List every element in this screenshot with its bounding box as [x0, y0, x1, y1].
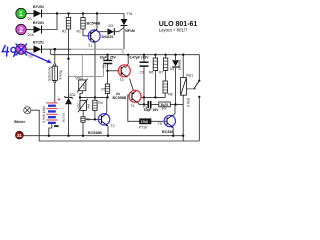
svg-text:BZX19: BZX19 [62, 112, 66, 122]
node junction D4 on rail Q [174, 54, 176, 56]
wire R1 bottom to T1 base [83, 29, 91, 36]
diode D2 BY251 [29, 41, 45, 59]
svg-text:D1b: D1b [28, 33, 34, 37]
svg-text:T3: T3 [120, 78, 124, 82]
node junction relay return on ground rail [182, 135, 184, 137]
svg-text:D1: D1 [28, 17, 32, 21]
diode D3 1N4151 [102, 24, 115, 39]
wire C1 bottom to T3 base tap to R5 box [107, 64, 109, 84]
svg-text:150: 150 [82, 84, 86, 89]
svg-text:4k8: 4k8 [86, 103, 90, 108]
svg-text:R6: R6 [149, 70, 153, 74]
capacitor C2 0.47uF 63V [130, 55, 150, 74]
svg-text:BC338: BC338 [162, 130, 173, 134]
node junction T3 base tap [106, 70, 108, 72]
wire fuse to battery plus [54, 83, 56, 103]
wire T3 emitter diagonal to T4 emitter [130, 79, 134, 91]
node junction R7 on rail Q [164, 54, 166, 56]
svg-text:C1: C1 [102, 65, 106, 69]
wire T3 base from C1 column [108, 70, 120, 72]
wire D1b output up to top rail [42, 14, 57, 30]
svg-text:31: 31 [17, 133, 22, 138]
terminal 3 (magenta) [16, 44, 26, 54]
thermistor NTC [77, 99, 91, 112]
svg-text:2: 2 [19, 27, 23, 34]
resistor R1 [77, 18, 86, 34]
zener diode ZD1 [62, 93, 76, 122]
terminal 1 (green) [16, 8, 26, 18]
svg-text:R9: R9 [162, 107, 166, 111]
wire T1 collector tap right to D3 [97, 31, 108, 33]
node junction R4 at T2 base [94, 118, 96, 120]
wire T4 base stub and down to PT10 [128, 95, 140, 121]
wire T4 right side to R6/R8 bottom node [141, 96, 165, 98]
wire relay coil top from rail Q [182, 55, 184, 78]
wire T2 collector up to mid node [106, 97, 108, 113]
svg-text:BY251: BY251 [33, 41, 44, 45]
node junction T1 collector on top rail [96, 12, 98, 14]
wire R4 bottom to T2 base junction [94, 111, 96, 120]
svg-text:6 Volt 14Ah: 6 Volt 14Ah [42, 106, 46, 123]
wire R8 bottom to node [164, 93, 166, 97]
diode D1b BY251 [28, 21, 45, 37]
svg-text:Th1: Th1 [127, 12, 133, 16]
svg-text:Sicherung: Sicherung [48, 66, 52, 81]
svg-text:0,47µF | 63V: 0,47µF | 63V [130, 55, 150, 59]
wire Th1 cathode to rail P corner [123, 26, 125, 50]
svg-text:ZD1: ZD1 [69, 93, 76, 97]
node junction C2 bottom [143, 103, 145, 105]
node junction T5 emitter on ground rail [172, 135, 174, 137]
wire C2 bottom down to collector node wire [143, 67, 145, 105]
lamp Blinker [14, 107, 31, 124]
svg-text:Rel1: Rel1 [186, 73, 193, 77]
svg-text:BY251: BY251 [33, 5, 44, 9]
svg-text:BY251: BY251 [33, 21, 44, 25]
svg-text:+: + [57, 97, 60, 103]
wire node wire C3 R9 relay [139, 104, 148, 106]
wire D3 cathode to thyristor gate [115, 27, 124, 31]
node junction C1 on rail Q [106, 54, 108, 56]
wire top rail [42, 13, 125, 15]
resistor R2 [62, 18, 71, 34]
svg-text:C2: C2 [140, 71, 144, 75]
wire ZD1 bottom to ground rail [68, 104, 70, 135]
wire R3 bottom to ground rail [82, 122, 84, 136]
svg-text:1N4151: 1N4151 [178, 59, 182, 70]
node junction R2 on top rail [67, 12, 69, 14]
wire battery minus to ground rail [49, 124, 52, 136]
node junction R3 on ground rail [82, 135, 84, 137]
wire T3 collector to rail Q [125, 55, 128, 68]
wire grey loop from zener node to C1 bottom plate [69, 59, 104, 77]
node junction VR1-NTC on mid wire [79, 96, 81, 98]
svg-text:R1: R1 [77, 30, 81, 34]
svg-text:T1: T1 [88, 44, 92, 48]
relay Rel1 coil [181, 73, 194, 107]
transistor T2 BC546B [88, 114, 115, 136]
svg-text:NP1M: NP1M [125, 29, 135, 33]
resistor R6 [149, 58, 158, 74]
wire R7 top from rail Q [165, 55, 167, 58]
wire rail P grey continuation and corner down to rail Q [71, 49, 123, 55]
wire NTC top [79, 97, 81, 100]
svg-text:BC546B: BC546B [87, 22, 101, 26]
diode D4 1N4151 [170, 59, 182, 71]
terminal 2 (magenta) [16, 24, 26, 34]
wire NTC bottom to R3 [82, 110, 84, 116]
svg-text:Blinker: Blinker [14, 120, 26, 124]
svg-text:R7: R7 [159, 70, 163, 74]
node junction T3 collector on rail Q [127, 54, 129, 56]
capacitor C3 10uF 16V [143, 101, 160, 112]
wire fuse column from rail P crossing rail Q [54, 49, 56, 64]
node junction relay coil on rail Q [182, 54, 184, 56]
node junction C2 crossing T4 wire [143, 96, 145, 98]
svg-text:17k0: 17k0 [141, 120, 149, 124]
wire T2 base from R3 column [86, 118, 101, 120]
trimmer PT10 [139, 119, 151, 130]
node junction fuse on rail P [54, 48, 57, 51]
wire T1 collector to top rail [91, 14, 97, 34]
wire T5 emitter to ground rail [172, 127, 174, 135]
transistor T5 BC338 [158, 115, 176, 134]
svg-text:8 Amp.: 8 Amp. [59, 69, 63, 79]
svg-text:6 Volt: 6 Volt [187, 98, 191, 107]
node junction T1 emitter on mid wire [94, 96, 96, 98]
thyristor Th1 NP1M [121, 12, 135, 33]
svg-text:T4: T4 [131, 104, 135, 108]
node junction R6 on rail Q [154, 54, 156, 56]
wire R4 top stub [94, 97, 96, 100]
svg-text:BC546B: BC546B [88, 131, 102, 135]
wire D4 bottom to relay node wire [175, 68, 177, 105]
wire C1 column from rail Q [107, 55, 109, 60]
wire rail Q (starts with corner up to rail P) [50, 49, 199, 55]
wire R2 bottom down through rails to zener ZD1 [68, 29, 70, 98]
wire R7 to R8 [165, 71, 167, 82]
fuse Sicherung 8A [48, 64, 63, 83]
resistor R4 [93, 100, 103, 110]
transistor T3 BC556B (red circled) [118, 65, 130, 82]
resistor R8 [163, 81, 173, 96]
resistor R7 [159, 58, 168, 74]
wire R2 column: top rail to R2 [68, 14, 70, 18]
svg-text:10µF 16V: 10µF 16V [144, 108, 160, 112]
node junction R1 on top rail [82, 12, 84, 14]
transistor T4 BC556B (red circled) [129, 90, 141, 108]
wire R6 bottom to node [154, 71, 156, 98]
node junction T2 emitter on ground rail [107, 135, 109, 137]
blue cross over terminal 3 [16, 44, 27, 55]
wire lamp down and return rail B along bottom [31, 110, 200, 141]
wire terminal2 to D1b [27, 29, 34, 31]
wire relay coil bottom through node wire down to rails [182, 95, 184, 141]
wire PT10 to T5 base [151, 120, 167, 122]
varistor VR1 [75, 76, 87, 92]
wire rail P from D2 (dark then grey) [42, 48, 72, 50]
node junction zener loop tap [67, 58, 69, 60]
svg-text:D3: D3 [109, 24, 113, 28]
wire terminal3 to D2 [27, 48, 34, 50]
wire R5 box bottom to mid node [107, 94, 109, 98]
wire T4 collector down to node wire [137, 102, 139, 105]
svg-text:R8: R8 [168, 92, 172, 96]
svg-text:Layout = 801/7: Layout = 801/7 [159, 27, 188, 32]
node junction battery on ground rail [48, 135, 50, 137]
svg-text:BC556B: BC556B [113, 96, 127, 100]
wire D4 column from rail Q [175, 55, 177, 60]
wire R6 top from rail Q [154, 55, 156, 58]
svg-text:NTC: NTC [77, 102, 81, 109]
svg-text:R5: R5 [101, 88, 105, 92]
node junction D4 bottom [174, 103, 176, 105]
handwritten 49 [2, 46, 15, 57]
svg-text:D4: D4 [170, 67, 174, 71]
wire T2 emitter to ground rail [107, 126, 109, 136]
wire VR1 bottom to mid node dot [80, 91, 82, 98]
resistor R9 [159, 102, 171, 111]
wire T1 emitter long drop to mid node [94, 42, 96, 97]
battery 6V [42, 97, 61, 126]
svg-text:R3: R3 [86, 117, 90, 121]
node junction zener on ground rail [67, 135, 69, 137]
svg-text:R2: R2 [62, 30, 66, 34]
wire C2 column from rail Q [143, 55, 145, 62]
node junction R6 R8 bottom [154, 96, 156, 98]
svg-text:T2: T2 [111, 124, 115, 128]
node junction R5 on mid wire [106, 96, 108, 98]
wire Th1 anode from top rail [123, 14, 125, 20]
resistor R3 [81, 117, 90, 122]
svg-text:R4: R4 [98, 101, 102, 105]
svg-text:1: 1 [19, 11, 23, 18]
wire right edge vertical lower (contact bottom to rail B) [198, 97, 200, 141]
svg-text:10µF | 25V: 10µF | 25V [100, 55, 117, 59]
terminal 31 (ground) [16, 131, 24, 139]
wire VR1 column from rail Q [81, 55, 83, 80]
wire terminal1 to D1 [27, 13, 34, 15]
node junction D1b joins top rail [56, 12, 58, 14]
node junction C2 on rail Q [143, 54, 145, 56]
wire R1 column: top rail to R1 [82, 14, 84, 18]
wire T5 collector up to node wire [173, 105, 175, 116]
svg-text:T5: T5 [158, 122, 162, 126]
transistor T1 BC546B [87, 22, 101, 48]
relay contact [186, 80, 200, 98]
wire right edge vertical upper (rail Q to contact top) [198, 55, 200, 80]
resistor R5 [101, 84, 109, 94]
blue arrow to fuse [27, 52, 50, 62]
svg-text:1N4151: 1N4151 [102, 35, 114, 39]
wire mid node horizontal [80, 96, 108, 98]
diode D1 BY251 [28, 5, 45, 21]
svg-text:PT10: PT10 [139, 125, 147, 129]
svg-text:D2: D2 [29, 55, 33, 59]
wire bottom ground rail A [23, 135, 183, 137]
capacitor C1 10uF 25V [100, 55, 117, 68]
